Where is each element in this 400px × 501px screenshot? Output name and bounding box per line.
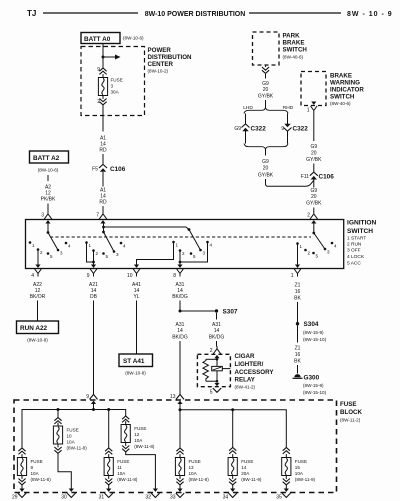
svg-text:GY/BK: GY/BK (258, 94, 274, 100)
wafer 1 blade (48, 233, 58, 250)
relay terminal 2 (210, 346, 221, 358)
fuse block terminal 30 (61, 489, 75, 501)
svg-text:G9: G9 (234, 126, 241, 132)
left bus (22, 410, 126, 449)
wire label G9 20 GY/BK lower (306, 188, 322, 207)
svg-text:10A: 10A (134, 438, 143, 443)
svg-text:1: 1 (307, 108, 310, 114)
fuse block terminal 29 (12, 489, 26, 501)
svg-text:14: 14 (241, 465, 247, 470)
svg-text:CENTER: CENTER (148, 61, 174, 68)
wire BATT A2 down (47, 175, 49, 181)
wire bus to fuse 10 (57, 410, 59, 418)
wafer 1 output wire to terminal 4 (37, 250, 39, 266)
ignition switch label (347, 220, 377, 267)
wire label A1 14 RD lower (99, 188, 107, 206)
svg-text:3: 3 (203, 251, 206, 256)
fuse block label (340, 401, 363, 423)
svg-text:BK: BK (294, 359, 301, 365)
svg-text:2: 2 (308, 251, 311, 256)
wire to ignition pin 2 (313, 180, 315, 188)
svg-text:ST A41: ST A41 (123, 358, 145, 365)
svg-text:(8W-11-8): (8W-11-8) (117, 477, 138, 482)
wire A31 to fuse block terminal 13 (179, 341, 181, 395)
wire (102, 172, 104, 187)
svg-text:13: 13 (170, 394, 176, 400)
fuse F12 (121, 416, 155, 489)
fuse F11 (104, 448, 138, 489)
svg-text:BATT A0: BATT A0 (84, 36, 111, 43)
wire fuse to PDC exit (102, 105, 104, 132)
svg-text:LIGHTER/: LIGHTER/ (235, 361, 264, 368)
svg-text:F5: F5 (92, 167, 98, 173)
wafer 1 contacts (29, 241, 71, 259)
relay contact (212, 366, 223, 370)
svg-text:(8W-15-10): (8W-15-10) (303, 337, 327, 342)
battery feed box BATT A0 (81, 33, 144, 44)
wire into ignition switch pin 3 (47, 204, 49, 212)
svg-text:14: 14 (214, 328, 220, 334)
fuse F15 (282, 448, 316, 490)
svg-text:5: 5 (210, 390, 213, 396)
fuse block terminal 31 (99, 489, 113, 501)
svg-text:BATT A2: BATT A2 (33, 155, 60, 162)
connector below park brake switch (262, 67, 269, 73)
svg-text:FUSE: FUSE (340, 401, 357, 408)
svg-text:PARK: PARK (283, 33, 301, 40)
svg-text:20: 20 (263, 87, 269, 93)
wire label A41 14 YL (132, 282, 141, 300)
terminal 9 (87, 265, 97, 280)
svg-text:(8W-11-8): (8W-11-8) (189, 477, 210, 482)
svg-text:3: 3 (116, 252, 119, 257)
wire down (313, 114, 315, 142)
svg-text:C106: C106 (319, 174, 335, 181)
svg-text:20: 20 (311, 151, 317, 157)
feed bus to wafer 3 (104, 227, 190, 230)
mechanical linkage dashed line (50, 236, 311, 238)
svg-text:5: 5 (50, 254, 53, 259)
svg-text:(8W-40-6): (8W-40-6) (283, 55, 304, 60)
wire label G9 20 GY/BK merged (258, 159, 274, 179)
svg-text:RUN A22: RUN A22 (20, 325, 48, 332)
fuse block dashed box (14, 400, 337, 493)
svg-text:30: 30 (61, 495, 67, 501)
fuse F9 (17, 448, 51, 489)
bus junctions (57, 408, 111, 411)
connector C106 cavity F11 (301, 172, 334, 181)
svg-text:FUSE: FUSE (67, 428, 79, 433)
svg-text:2: 2 (96, 251, 99, 256)
svg-text:9: 9 (281, 126, 284, 132)
svg-text:1: 1 (300, 244, 303, 249)
svg-text:ACCESSORY: ACCESSORY (235, 369, 275, 376)
node RUN A22 (17, 321, 59, 343)
svg-text:1: 1 (291, 273, 294, 279)
svg-text:S304: S304 (304, 321, 319, 328)
svg-text:SWITCH: SWITCH (347, 228, 373, 235)
svg-text:(8W-11-2): (8W-11-2) (340, 418, 361, 423)
relay contact side lead (222, 368, 230, 370)
wire BATT A0 to node (102, 44, 104, 58)
feed bus junction (102, 226, 105, 229)
stem to LHD/RHD split (265, 100, 267, 107)
right bus junctions (179, 408, 235, 411)
svg-text:(8W-11-8): (8W-11-8) (134, 444, 155, 449)
svg-text:20A: 20A (241, 471, 250, 476)
splice S307 (215, 309, 238, 316)
svg-text:8W - 10 - 9: 8W - 10 - 9 (347, 11, 393, 18)
svg-text:10A: 10A (117, 471, 126, 476)
svg-text:5 ACC: 5 ACC (347, 261, 361, 267)
svg-text:2: 2 (210, 348, 213, 354)
svg-text:BLOCK: BLOCK (340, 409, 363, 416)
wire label G9 20 GY/BK (306, 144, 322, 163)
svg-text:(8W-10-6): (8W-10-6) (38, 168, 59, 173)
svg-text:C322: C322 (251, 126, 267, 133)
relay coil (203, 359, 209, 381)
svg-text:(8W-15-10): (8W-15-10) (303, 390, 327, 395)
power distribution center label (148, 47, 193, 74)
svg-text:(8W-10-8): (8W-10-8) (27, 338, 48, 343)
LHD branch wire (245, 114, 247, 125)
power distribution center dashed box (81, 47, 145, 116)
svg-text:1: 1 (176, 243, 179, 248)
svg-text:(8W-15-9): (8W-15-9) (303, 383, 324, 388)
svg-text:3: 3 (111, 84, 114, 89)
wire below S304 (297, 325, 299, 342)
svg-text:BK/OR: BK/OR (30, 294, 46, 300)
relay label (235, 353, 275, 389)
split brace (244, 107, 288, 114)
wire terminal 9 to bus (93, 403, 95, 410)
svg-text:5: 5 (106, 254, 109, 259)
svg-text:Z1: Z1 (295, 283, 301, 289)
wire label A31 14 BK/DG relay branch (209, 322, 225, 341)
svg-text:CIGAR: CIGAR (235, 353, 255, 360)
wire to ground (297, 365, 299, 374)
fuse block terminal 34 (223, 489, 237, 501)
svg-text:5: 5 (193, 254, 196, 259)
svg-text:16: 16 (295, 352, 301, 358)
wafer 4 feed wire (313, 223, 315, 234)
svg-text:31: 31 (99, 495, 105, 501)
svg-text:(8W-11-8): (8W-11-8) (31, 477, 52, 482)
connector C322 RHD (281, 124, 308, 133)
svg-text:FUSE: FUSE (189, 459, 201, 464)
wafer 3 blade (189, 230, 200, 250)
svg-text:GY/BK: GY/BK (258, 173, 274, 179)
fuse block terminal 33 (170, 489, 184, 501)
wire Z1 down (297, 302, 299, 322)
brake warning indicator switch label (330, 73, 364, 107)
svg-text:FUSE: FUSE (111, 78, 123, 83)
svg-text:PK/BK: PK/BK (41, 197, 56, 203)
svg-text:3: 3 (41, 213, 44, 219)
LHD wire below connector (245, 131, 247, 144)
svg-text:YL: YL (133, 294, 139, 300)
cigar lighter accessory relay dashed box (197, 354, 230, 386)
svg-text:RD: RD (99, 148, 107, 154)
svg-text:1 START: 1 START (347, 236, 366, 242)
svg-text:10A: 10A (295, 471, 304, 476)
svg-text:IGNITION: IGNITION (347, 220, 377, 227)
svg-text:7: 7 (96, 213, 99, 219)
svg-text:3: 3 (327, 250, 330, 255)
svg-text:SWITCH: SWITCH (330, 94, 355, 101)
svg-text:35: 35 (276, 495, 282, 501)
svg-text:(8W-10-6): (8W-10-6) (123, 36, 144, 41)
svg-text:4 LOCK: 4 LOCK (347, 254, 365, 260)
svg-text:G300: G300 (304, 374, 320, 381)
wire terminal 13 down (179, 403, 181, 449)
svg-text:RD: RD (99, 200, 107, 206)
svg-text:(8W-11-8): (8W-11-8) (67, 446, 88, 451)
wire label A22 12 BK/OR (30, 282, 46, 300)
wire label A2 12 PK/BK (41, 185, 56, 203)
wire label Z1 16 BK upper (294, 283, 301, 302)
terminal 3 (41, 211, 52, 223)
svg-text:DISTRIBUTION: DISTRIBUTION (148, 54, 193, 61)
wafer 1 pivot (47, 231, 50, 234)
svg-text:32: 32 (145, 495, 151, 501)
svg-text:2: 2 (182, 251, 185, 256)
svg-text:33: 33 (170, 495, 176, 501)
battery feed box BATT A2 (30, 151, 69, 173)
RHD wire below connector (287, 131, 289, 144)
svg-text:2 RUN: 2 RUN (347, 242, 362, 248)
svg-text:GY/BK: GY/BK (306, 201, 322, 207)
svg-text:BK/DG: BK/DG (209, 335, 225, 341)
svg-text:S307: S307 (223, 309, 238, 316)
svg-text:FUSE: FUSE (241, 459, 253, 464)
wire label G9 20 GY/BK (258, 81, 274, 100)
terminal 10 (127, 265, 140, 280)
wire bus to fuse 11 (108, 410, 110, 449)
wire (265, 65, 267, 67)
svg-text:(8W-10-2): (8W-10-2) (148, 69, 169, 74)
svg-text:(8W-41-2): (8W-41-2) (235, 385, 256, 390)
wafer 2 output wires to terminal 9 (87, 243, 94, 266)
wire (313, 164, 315, 173)
wafer 2 contacts (85, 241, 126, 259)
wafer 1 feed wire (47, 223, 49, 233)
relay bottom wire (216, 371, 218, 383)
svg-text:4: 4 (123, 244, 126, 249)
svg-text:BK/DG: BK/DG (172, 294, 188, 300)
svg-text:BK: BK (294, 296, 301, 302)
svg-text:1: 1 (89, 243, 92, 248)
svg-text:Z1: Z1 (295, 346, 301, 352)
wire A31 down (179, 301, 181, 312)
terminal 7 (96, 211, 107, 223)
svg-text:10A: 10A (31, 471, 40, 476)
svg-text:16: 16 (295, 289, 301, 295)
svg-text:30A: 30A (111, 90, 120, 95)
svg-text:TJ: TJ (27, 9, 36, 18)
wafer 4 pivot (312, 232, 315, 235)
svg-text:2: 2 (40, 250, 43, 255)
brake warning indicator switch dashed box (301, 72, 326, 106)
svg-text:13: 13 (189, 465, 195, 470)
svg-text:14: 14 (177, 328, 183, 334)
svg-text:5: 5 (316, 254, 319, 259)
svg-text:3: 3 (60, 251, 63, 256)
terminal 8 (173, 265, 183, 280)
svg-text:GY/BK: GY/BK (306, 157, 322, 163)
svg-text:4: 4 (210, 243, 213, 248)
header title bar (27, 9, 393, 18)
node junction with branch arrow (102, 55, 121, 60)
merge brace (244, 144, 288, 151)
wire into ignition switch pin 7 (102, 206, 104, 212)
RHD branch wire (287, 114, 289, 125)
fuse F14 (228, 448, 262, 490)
svg-text:BRAKE: BRAKE (330, 73, 352, 80)
svg-text:BK/DG: BK/DG (172, 335, 188, 341)
svg-text:9: 9 (31, 465, 34, 470)
node ST A41 (119, 354, 153, 376)
wire label A1 14 RD upper (99, 136, 107, 154)
relay internal feed (216, 358, 218, 367)
svg-text:20: 20 (311, 194, 317, 200)
svg-text:DB: DB (90, 294, 98, 300)
svg-text:G9: G9 (262, 159, 269, 165)
svg-text:10A: 10A (67, 440, 76, 445)
connector C106 cavity F5 (92, 164, 126, 173)
fuse F3 30A (98, 74, 122, 99)
svg-text:FUSE: FUSE (134, 426, 146, 431)
svg-text:C322: C322 (293, 126, 309, 133)
svg-text:15: 15 (295, 465, 301, 470)
wire to junction below C106 (266, 179, 314, 186)
svg-text:9: 9 (97, 67, 100, 73)
svg-text:(8W-11-9): (8W-11-9) (295, 477, 316, 482)
svg-text:C106: C106 (110, 166, 126, 173)
connector C322 LHD (234, 124, 266, 133)
fuse F13 (175, 448, 209, 489)
svg-text:8W-10 POWER DISTRIBUTION: 8W-10 POWER DISTRIBUTION (145, 11, 246, 18)
ground G300 (293, 374, 327, 395)
wire node to fuse cavity 9 (102, 57, 104, 68)
right bus (180, 410, 286, 448)
svg-text:FUSE: FUSE (117, 459, 129, 464)
splice S304 (296, 321, 327, 342)
connector chevrons above fuse 3 (99, 68, 106, 74)
terminal 2 (307, 211, 317, 223)
svg-text:(8W-40-6): (8W-40-6) (330, 101, 351, 106)
svg-text:20: 20 (263, 166, 269, 172)
svg-text:9: 9 (86, 394, 89, 400)
svg-text:(8W-10-8): (8W-10-8) (125, 371, 146, 376)
connector chevrons below fuse 3 (99, 99, 106, 105)
park brake switch dashed box (253, 32, 280, 65)
svg-text:POWER: POWER (148, 47, 172, 54)
wire (102, 154, 104, 164)
svg-text:8: 8 (173, 273, 176, 279)
wafer 3 pivot (188, 228, 191, 231)
svg-text:FUSE: FUSE (31, 459, 43, 464)
wire label Z1 16 BK lower (294, 346, 301, 365)
terminal 4 (31, 265, 41, 280)
svg-text:(8W-11-9): (8W-11-9) (241, 477, 262, 482)
wafer 4 output wire to terminal 1 (297, 244, 299, 266)
wafer 3 contacts (172, 241, 212, 259)
terminal 1 (291, 265, 301, 280)
wire label A21 14 DB (89, 282, 98, 300)
svg-text:2: 2 (307, 213, 310, 219)
svg-text:G9: G9 (310, 144, 317, 150)
ignition switch box (26, 220, 344, 269)
svg-text:RELAY: RELAY (235, 377, 256, 384)
wafer 2 pivot (102, 231, 105, 234)
wafer 3 output wires to terminal 8 (180, 242, 208, 265)
fuse F10 (53, 418, 87, 490)
wafer 3 output wire to terminal 10 (137, 242, 174, 265)
wire to RUN A22 (37, 301, 39, 322)
svg-text:34: 34 (223, 495, 229, 501)
park brake switch label (283, 33, 308, 60)
wire to splice S307 (180, 310, 217, 312)
svg-text:12: 12 (134, 432, 140, 437)
svg-text:RHD: RHD (283, 105, 294, 111)
svg-text:10: 10 (127, 273, 133, 279)
svg-text:4: 4 (31, 273, 34, 279)
svg-text:F11: F11 (301, 174, 309, 180)
svg-text:4: 4 (68, 244, 71, 249)
svg-text:INDICATOR: INDICATOR (330, 87, 364, 94)
wire S307 to relay (216, 313, 218, 347)
svg-text:1: 1 (32, 243, 35, 248)
svg-text:FUSE: FUSE (295, 459, 307, 464)
wire label A31 14 BK/DG (172, 282, 188, 300)
svg-text:(8W-15-9): (8W-15-9) (303, 330, 324, 335)
wafer 4 contacts (296, 242, 337, 259)
svg-text:10: 10 (67, 434, 73, 439)
fuse block terminal 32 (145, 489, 159, 501)
fuse block terminal 9 (86, 394, 97, 404)
wafer 4 blade (314, 233, 325, 249)
svg-text:9: 9 (87, 273, 90, 279)
wire label A31 14 BK/DG left (172, 322, 188, 341)
svg-text:11: 11 (117, 465, 122, 470)
svg-text:WARNING: WARNING (330, 80, 360, 87)
relay terminal 5 (210, 383, 221, 396)
svg-text:BRAKE: BRAKE (283, 40, 305, 47)
svg-text:10A: 10A (189, 471, 198, 476)
stem below merge (265, 150, 267, 156)
terminal 1 of brake warning switch (307, 102, 317, 114)
svg-text:3 OFF: 3 OFF (347, 248, 361, 254)
fuse block terminal 13 (170, 394, 184, 404)
wire bus to fuse 14 (232, 410, 234, 448)
wire to ST A41 (136, 301, 138, 355)
svg-text:SWITCH: SWITCH (283, 47, 308, 54)
svg-text:4: 4 (334, 244, 337, 249)
wafer 2 blade (104, 232, 114, 251)
wafer 2 feed wire (103, 223, 105, 233)
wire A21 to fuse block (93, 301, 95, 395)
junction A31 (179, 310, 182, 313)
svg-text:29: 29 (12, 495, 18, 501)
fuse block terminal 35 (276, 489, 290, 501)
